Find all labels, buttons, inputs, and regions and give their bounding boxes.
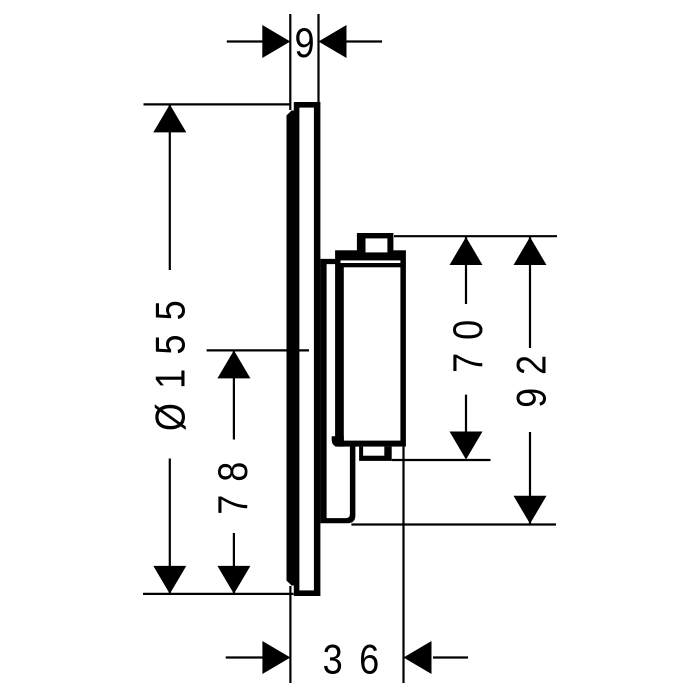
dimension line O155: lower segment: [169, 459, 171, 594]
svg-text:70: 70: [445, 307, 491, 373]
arrowhead O155 top: [153, 104, 186, 132]
valve body outline: [335, 250, 406, 446]
arrowhead 9 right: [319, 25, 347, 58]
extension line: cartridge stem top (70/92): [394, 235, 557, 237]
dimension line 9: right tail: [345, 40, 382, 42]
valve sleeve interior: [327, 264, 350, 518]
dimension line 36: right tail: [433, 656, 468, 658]
valve sleeve outline: [320, 259, 355, 523]
wall plate: front panel outline: [294, 102, 321, 596]
arrowhead 36 left: [262, 641, 290, 674]
dimension line O155: upper segment: [169, 104, 171, 270]
dimension line 36: left tail: [226, 656, 263, 658]
extension line: plate bottom (O155/78): [143, 593, 294, 595]
extension line: plate back face (9 dim left): [289, 14, 291, 110]
svg-text:36: 36: [323, 637, 396, 683]
svg-text:9: 9: [294, 20, 314, 66]
bottom stub interior: [363, 447, 384, 456]
extension line: plate top (O155): [144, 103, 291, 105]
arrowhead 70 top: [450, 237, 483, 265]
centerline at plate axis: [207, 349, 309, 351]
arrowhead 70 bottom: [450, 432, 483, 460]
svg-text:78: 78: [210, 449, 256, 515]
dimension line 78: lower segment: [233, 533, 235, 594]
extension line: sleeve bottom (92): [351, 523, 556, 525]
arrowhead 92 bottom: [514, 496, 547, 524]
arrowhead 9 left: [262, 25, 290, 58]
wall plate: back edge bar: [287, 111, 296, 586]
arrowhead 36 right: [404, 641, 432, 674]
cartridge stem interior: [366, 238, 388, 252]
dimension line 92: lower segment: [529, 432, 531, 524]
bottom stub outline: [359, 447, 392, 461]
valve body: cap groove: [341, 260, 401, 263]
arrowhead 78 bottom: [217, 566, 250, 594]
dimension line 92: upper segment: [529, 237, 531, 349]
valve body interior: [344, 267, 401, 440]
wall plate: front panel interior: [299, 108, 314, 591]
arrowhead O155 bottom: [153, 566, 186, 594]
extension line: wall face (36 left): [289, 586, 291, 683]
dimension line 70: lower segment: [465, 395, 467, 458]
valve body foot corner: [332, 436, 344, 446]
dimension line 9: left tail: [227, 40, 264, 42]
extension line: body face (36 right): [402, 447, 404, 683]
cartridge stem outline: [357, 233, 394, 252]
dimension line 70: upper segment: [465, 237, 467, 305]
extension line: plate front face (9 dim right): [317, 14, 319, 103]
extension line: stub bottom (70): [392, 459, 491, 461]
arrowhead 78 top: [217, 350, 250, 378]
svg-text:92: 92: [509, 342, 555, 408]
arrowhead 92 top: [514, 237, 547, 265]
svg-text:Ø155: Ø155: [148, 286, 194, 431]
dimension line 78: upper segment: [233, 350, 235, 439]
